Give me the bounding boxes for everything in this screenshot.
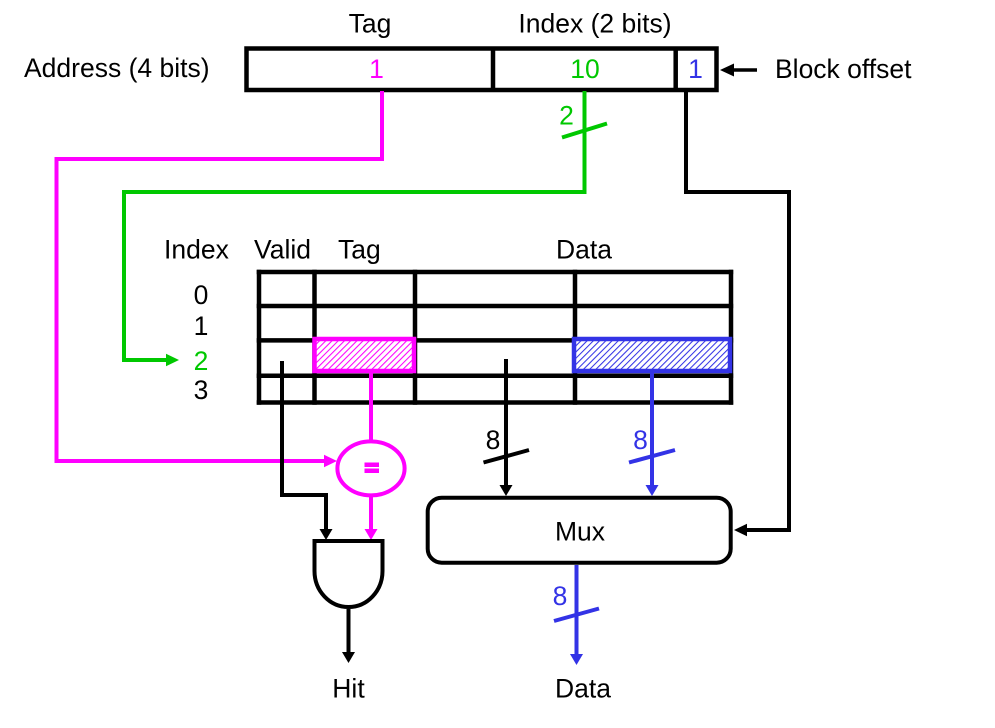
wire: valid bit to AND gate [282, 361, 326, 532]
table row line under row 1 [257, 338, 734, 343]
svg-text:8: 8 [553, 581, 568, 611]
svg-text:1: 1 [194, 311, 209, 341]
svg-text:3: 3 [194, 375, 209, 405]
wire: AND output to Hit [347, 609, 351, 653]
svg-text:Index (2 bits): Index (2 bits) [518, 9, 671, 39]
svg-text:0: 0 [194, 280, 209, 310]
address box [247, 49, 717, 91]
slash on mux output wire [554, 609, 599, 622]
comparator = (magenta ellipse) [337, 441, 404, 495]
svg-text:8: 8 [633, 425, 648, 455]
table right edge [729, 270, 734, 405]
table row line under row 0 [257, 304, 734, 309]
table divider tag/data1 [413, 270, 418, 405]
wire: tag magenta from address box to comparator [57, 91, 383, 461]
slash on blue data wire [629, 450, 675, 463]
slash on index wire [562, 124, 607, 138]
svg-text:2: 2 [194, 346, 209, 376]
wire: selected data cell to mux (blue) [650, 372, 654, 487]
svg-text:Tag: Tag [349, 9, 392, 39]
AND gate [315, 541, 383, 607]
svg-text:10: 10 [570, 54, 599, 84]
wire: block offset black from address box to mux select [686, 91, 789, 530]
wire: index green from address box to row pointer [124, 91, 585, 360]
cache table grid [257, 270, 734, 405]
table bottom edge [257, 400, 734, 405]
svg-text:Address (4 bits): Address (4 bits) [24, 53, 210, 83]
table divider data1/data2 [573, 270, 578, 405]
svg-text:Hit: Hit [332, 674, 365, 704]
svg-text:Mux: Mux [555, 517, 605, 547]
selected data cell (blue hatched) [574, 339, 730, 371]
svg-text:Tag: Tag [338, 235, 381, 265]
table left edge [257, 270, 262, 405]
wire: mux output to Data (blue) [575, 565, 579, 655]
table divider valid/tag [312, 270, 317, 405]
svg-text:Valid: Valid [254, 235, 311, 265]
svg-text:8: 8 [486, 425, 501, 455]
table top edge [257, 270, 734, 275]
wire: comparator output to AND gate (magenta) [369, 496, 373, 533]
table row line under row 2 [257, 373, 734, 378]
svg-text:Index: Index [164, 235, 229, 265]
svg-text:1: 1 [369, 54, 384, 84]
svg-text:2: 2 [559, 101, 574, 131]
svg-text:1: 1 [688, 54, 703, 84]
Mux box [428, 498, 731, 563]
selected tag cell (magenta hatched) [315, 339, 415, 371]
svg-text:Block offset: Block offset [775, 54, 912, 84]
wire: stored tag to comparator (magenta) [369, 371, 373, 441]
address box divider tag/index [491, 47, 496, 93]
svg-text:Data: Data [556, 235, 612, 265]
block offset pointer arrow [720, 64, 757, 77]
svg-text:Data: Data [555, 674, 611, 704]
wire: data column to mux (black) [504, 359, 508, 487]
slash on black data wire [484, 450, 530, 463]
address box divider index/offset [673, 47, 678, 93]
